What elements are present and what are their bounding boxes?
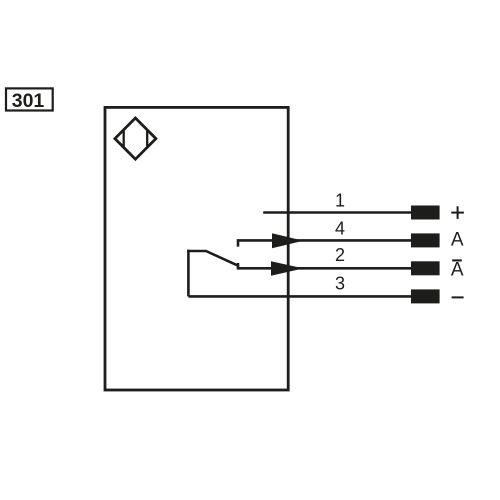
left chord [123, 130, 125, 148]
svg-text:A: A [451, 230, 464, 251]
label box 301 [6, 88, 53, 111]
svg-text:4: 4 [335, 218, 345, 238]
label minus [452, 296, 464, 298]
changeover switch lever [187, 251, 237, 265]
terminal 1 [411, 206, 440, 220]
arrow on wire 4 [272, 233, 303, 248]
label + [451, 206, 464, 219]
wire 4 (A) with contact tick [238, 240, 412, 246]
wire 1 (+) [263, 211, 412, 214]
svg-text:1: 1 [335, 191, 345, 211]
arrow on wire 2 [271, 261, 303, 276]
svg-text:A: A [451, 260, 464, 281]
svg-text:2: 2 [335, 245, 345, 265]
sensor symbol U1 (inductive sensor diamond) [115, 118, 156, 159]
label A-bar [451, 260, 464, 281]
svg-text:3: 3 [335, 274, 345, 294]
sensor body rectangle [105, 107, 288, 390]
terminal 4 [411, 233, 440, 247]
common rail vertical wire [187, 250, 190, 297]
terminal 3 [411, 289, 440, 303]
wire 3 (-) [188, 295, 412, 298]
svg-text:301: 301 [12, 90, 45, 112]
right chord [146, 130, 148, 148]
wire 2 (A-bar) with contact tick [238, 263, 412, 268]
terminal 2 [411, 261, 440, 275]
